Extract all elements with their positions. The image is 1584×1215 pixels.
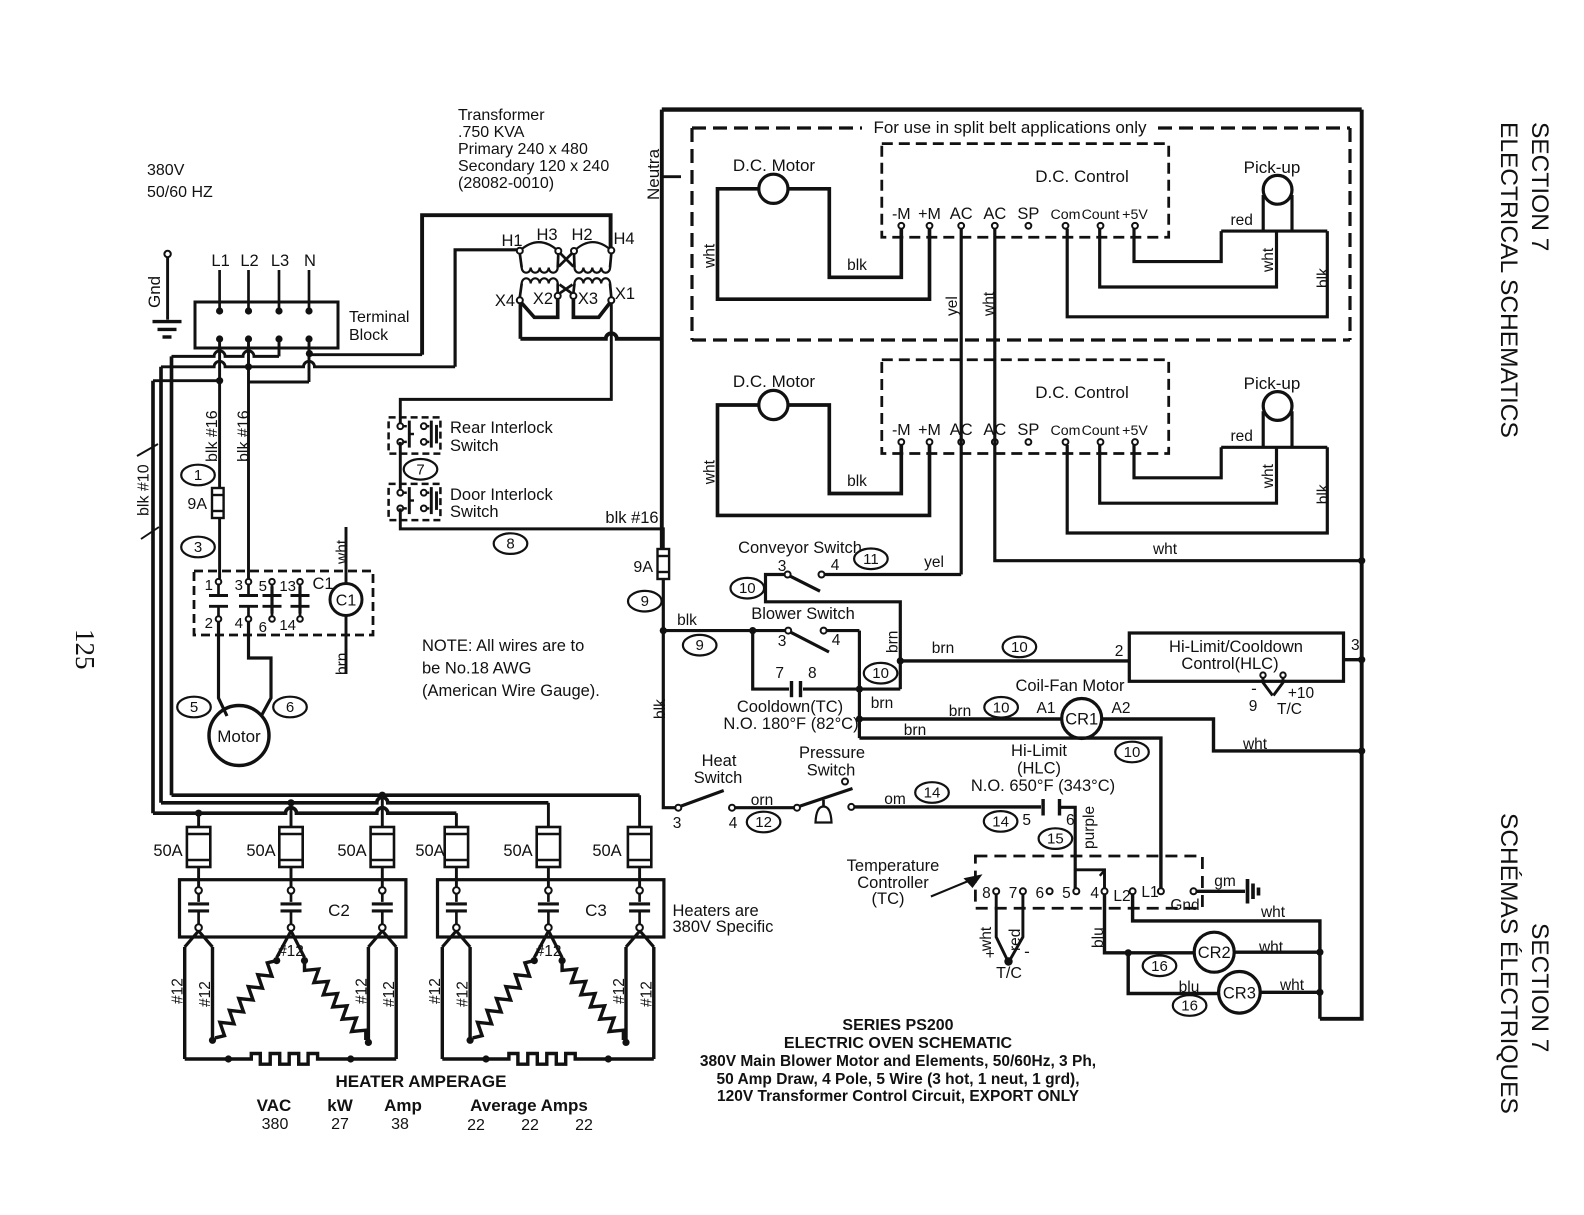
- C2 contact at x=382.3: [379, 887, 386, 894]
- svg-text:blk: blk: [847, 473, 867, 490]
- terminal X2: [555, 293, 561, 299]
- wire brn drop: [858, 689, 861, 738]
- node element top L C2: [273, 957, 280, 964]
- svg-text:Block: Block: [349, 327, 389, 344]
- wire orn pressure-hilimit: [854, 805, 1041, 808]
- svg-text:D.C. Control: D.C. Control: [1035, 167, 1129, 186]
- transformer secondary series jumpers: [522, 299, 558, 317]
- node fuse2 tap: [287, 799, 294, 806]
- svg-text:#12: #12: [427, 978, 444, 1004]
- svg-text:2: 2: [205, 615, 213, 632]
- wire fuse2 to contactor: [290, 867, 293, 887]
- callout 1: [181, 465, 215, 486]
- svg-text:50A: 50A: [503, 842, 532, 860]
- wire door interlock to 9A fuse: [400, 508, 663, 549]
- wire blk motor loop lower: [788, 405, 901, 494]
- svg-text:6: 6: [1035, 885, 1044, 902]
- tick wire mark: [137, 444, 158, 456]
- Temperature Controller dashed box: [975, 856, 1202, 908]
- node right rail / wht AC: [1358, 557, 1365, 564]
- wire #12 outer right C3: [652, 947, 655, 1059]
- svg-text:Pressure: Pressure: [799, 744, 865, 762]
- node blower/cooldown split: [749, 627, 756, 634]
- node right rail / CR1 wht: [1358, 747, 1365, 754]
- svg-text:+M: +M: [918, 206, 941, 223]
- svg-text:10: 10: [739, 580, 756, 597]
- svg-text:380V Specific: 380V Specific: [673, 918, 774, 936]
- svg-text:27: 27: [331, 1116, 349, 1133]
- wire pickup leg R lower: [1290, 411, 1293, 447]
- wire fuse6 drop: [638, 795, 641, 827]
- svg-text:50A: 50A: [246, 842, 275, 860]
- svg-text:3: 3: [778, 558, 787, 575]
- node L2 top: [245, 307, 252, 314]
- svg-text:Rear Interlock: Rear Interlock: [450, 419, 553, 437]
- node N bottom: [305, 335, 312, 342]
- wire L3 drop: [278, 339, 281, 356]
- svg-text:wht: wht: [334, 539, 351, 565]
- svg-text:38: 38: [391, 1116, 409, 1133]
- svg-text:brn: brn: [904, 722, 926, 739]
- callout 10 conveyor: [731, 578, 765, 599]
- Rear Interlock Switch: [389, 417, 441, 453]
- wire brn to A1: [859, 717, 1061, 720]
- svg-text:Amp: Amp: [384, 1096, 422, 1115]
- svg-text:#12: #12: [197, 981, 214, 1007]
- svg-text:7: 7: [1009, 885, 1018, 902]
- svg-text:X1: X1: [615, 285, 635, 303]
- C3 contact at x=639.6: [636, 887, 643, 894]
- transformer T1: [520, 242, 559, 251]
- wire fuse4 to contactor: [455, 867, 458, 887]
- heater bottom bus C2: [185, 1054, 397, 1065]
- terminal X4: [517, 297, 523, 303]
- svg-text:14: 14: [279, 617, 296, 634]
- svg-text:brn: brn: [334, 653, 351, 675]
- svg-text:Cooldown(TC): Cooldown(TC): [737, 698, 843, 716]
- C3 contact at x=456.4: [453, 887, 460, 894]
- svg-text:50 Amp Draw, 4 Pole, 5 Wire (3: 50 Amp Draw, 4 Pole, 5 Wire (3 hot, 1 ne…: [716, 1071, 1079, 1088]
- fuse 50A #3: [371, 827, 394, 867]
- wire brn to HLC: [900, 659, 1129, 662]
- svg-text:purple: purple: [1081, 806, 1098, 849]
- svg-text:Count: Count: [1082, 207, 1120, 223]
- terminal H3: [555, 248, 561, 254]
- svg-text:C1: C1: [312, 575, 333, 593]
- node element bot L C2: [209, 1037, 216, 1044]
- Cooldown (TC) contact: [753, 631, 789, 690]
- ground symbol (supply Gnd): [164, 251, 170, 257]
- svg-text:7: 7: [416, 461, 424, 478]
- terminal H4: [608, 247, 614, 253]
- svg-text:wht: wht: [1279, 977, 1305, 994]
- wire conveyor feed: [766, 575, 901, 690]
- svg-text:+10: +10: [1288, 685, 1315, 702]
- svg-text:6: 6: [286, 699, 294, 716]
- svg-text:For use in split belt applicat: For use in split belt applications only: [873, 118, 1147, 137]
- wire neutral tick: [662, 175, 681, 178]
- svg-text:6: 6: [1066, 812, 1075, 829]
- wire #12 inner right C2: [367, 947, 370, 1040]
- svg-text:AC: AC: [983, 205, 1006, 223]
- svg-text:(American Wire Gauge).: (American Wire Gauge).: [422, 682, 600, 700]
- wire blk motor loop upper: [788, 189, 901, 277]
- wire fuse3 drop: [381, 795, 384, 827]
- C1 contact 13-14: [297, 579, 303, 585]
- wire top rail: [662, 107, 1362, 111]
- svg-text:H4: H4: [613, 230, 634, 248]
- node blk junction: [660, 627, 667, 634]
- svg-text:10: 10: [1124, 744, 1141, 761]
- node L1 bottom: [216, 335, 223, 342]
- C2 contact at x=291: [288, 887, 295, 894]
- svg-text:be No.18 AWG: be No.18 AWG: [422, 660, 531, 678]
- Pick-up lower: [1263, 392, 1292, 421]
- fuse 50A #4: [445, 827, 468, 867]
- transformer secondary windings: [522, 278, 558, 283]
- node L1 junction: [216, 377, 223, 384]
- wire TC gnd: [1197, 890, 1246, 893]
- svg-text:380V Main Blower Motor and Ele: 380V Main Blower Motor and Elements, 50/…: [700, 1053, 1096, 1070]
- svg-text:Primary 240 x 480: Primary 240 x 480: [458, 141, 588, 158]
- svg-text:(TC): (TC): [872, 890, 905, 908]
- wire fuse5 to contactor: [547, 867, 550, 887]
- wire neutral to left rail: [520, 333, 661, 339]
- svg-text:wht: wht: [1260, 463, 1277, 489]
- node L1 top: [216, 307, 223, 314]
- callout 10 a1: [984, 697, 1018, 718]
- svg-text:Pick-up: Pick-up: [1244, 158, 1301, 177]
- wire red +5V to pickup upper: [1134, 229, 1221, 262]
- relay coil CR3: [1219, 972, 1261, 1014]
- svg-text:Motor: Motor: [217, 727, 261, 746]
- svg-text:22: 22: [521, 1117, 539, 1134]
- wire pickup leg L lower: [1262, 411, 1265, 447]
- relay coil CR2: [1194, 932, 1234, 972]
- terminal H2: [571, 248, 577, 254]
- wire wht C1 coil: [345, 527, 348, 584]
- svg-text:+: +: [985, 946, 994, 963]
- wire N to transformer: [309, 353, 422, 356]
- wire fuse to C1-1: [218, 518, 221, 579]
- svg-text:ELECTRICAL SCHEMATICS: ELECTRICAL SCHEMATICS: [1495, 122, 1522, 438]
- svg-text:14: 14: [924, 785, 941, 802]
- wire yel conveyor: [825, 573, 962, 576]
- wire blk to heat switch: [663, 579, 675, 808]
- svg-text:3: 3: [194, 539, 202, 556]
- svg-text:-M: -M: [892, 422, 911, 439]
- svg-text:VAC: VAC: [257, 1096, 292, 1115]
- svg-text:4: 4: [831, 557, 840, 574]
- svg-text:H2: H2: [571, 226, 592, 244]
- svg-text:12: 12: [755, 814, 772, 831]
- svg-text:#12: #12: [455, 981, 472, 1007]
- pressure blade: [800, 789, 853, 807]
- svg-text:SCHÉMAS ÉLECTRIQUES: SCHÉMAS ÉLECTRIQUES: [1495, 813, 1522, 1114]
- wire wht TC8: [996, 894, 1007, 960]
- D.C. Control dashed box (lower): [882, 360, 1169, 454]
- hilimit plate 6: [1058, 799, 1061, 816]
- svg-text:Hi-Limit: Hi-Limit: [1011, 742, 1067, 760]
- D.C. Motor lower: [759, 390, 788, 419]
- callout 9 b: [683, 635, 717, 656]
- svg-text:#12: #12: [639, 981, 656, 1007]
- svg-text:D.C. Control: D.C. Control: [1035, 383, 1129, 402]
- svg-text:8: 8: [982, 885, 991, 902]
- wire L2 lead: [247, 270, 250, 311]
- node bus dot R C2: [347, 1055, 354, 1062]
- wire red +5V to pickup lower: [1134, 445, 1221, 478]
- svg-text:X3: X3: [578, 290, 598, 308]
- svg-text:5: 5: [259, 578, 267, 595]
- wire yel AC chain: [960, 229, 963, 575]
- svg-text:T/C: T/C: [996, 965, 1022, 982]
- svg-text:22: 22: [467, 1117, 485, 1134]
- wire pickup bus upper: [1221, 230, 1327, 233]
- wire bus L2: [161, 797, 548, 803]
- wire transformer neutral bottom: [519, 303, 523, 339]
- svg-text:Switch: Switch: [450, 437, 499, 455]
- svg-text:red: red: [1230, 428, 1252, 445]
- svg-text:SECTION 7: SECTION 7: [1526, 122, 1553, 251]
- svg-text:SP: SP: [1017, 421, 1039, 439]
- svg-text:50A: 50A: [153, 842, 182, 860]
- svg-text:wht: wht: [702, 243, 719, 269]
- wire blk Com to pickup lower: [1067, 445, 1327, 533]
- Hi-Limit/Cooldown Control (HLC) box: [1129, 633, 1343, 681]
- fuse 50A #6: [628, 827, 651, 867]
- callout 14 a: [915, 782, 949, 803]
- HLC thermocouple: [1260, 672, 1265, 677]
- svg-text:brn: brn: [884, 631, 901, 653]
- svg-text:#12: #12: [536, 943, 562, 960]
- terminal X1: [608, 297, 614, 303]
- heater bank C3 wiring: [442, 931, 456, 947]
- svg-text:2: 2: [1115, 643, 1124, 660]
- D.C. Control dashed box (upper): [882, 144, 1169, 238]
- svg-text:X2: X2: [533, 290, 553, 308]
- svg-text:Terminal: Terminal: [349, 309, 409, 326]
- svg-text:10: 10: [872, 665, 889, 682]
- svg-text:blk #16: blk #16: [605, 509, 658, 527]
- svg-text:blk: blk: [677, 612, 697, 629]
- svg-text:5: 5: [1022, 812, 1031, 829]
- wire A2 to rail: [1102, 719, 1362, 751]
- svg-text:yel: yel: [944, 296, 961, 316]
- svg-text:9A: 9A: [633, 559, 653, 576]
- svg-text:.750 KVA: .750 KVA: [458, 124, 525, 141]
- wire left rail (neutral/feed): [660, 110, 664, 549]
- relay coil CR1: [1062, 699, 1102, 739]
- svg-text:blk: blk: [652, 699, 669, 719]
- wire L2 riser to H1: [455, 250, 517, 367]
- svg-text:3: 3: [235, 577, 243, 594]
- svg-text:H1: H1: [501, 232, 522, 250]
- svg-text:Door Interlock: Door Interlock: [450, 486, 553, 504]
- svg-text:yel: yel: [924, 554, 944, 571]
- svg-text:C2: C2: [328, 901, 350, 920]
- hilimit plate 5: [1041, 799, 1044, 816]
- svg-text:6: 6: [259, 619, 267, 636]
- node L2 bottom: [245, 335, 252, 342]
- node brn junction: [897, 657, 904, 664]
- svg-text:wht: wht: [1242, 736, 1268, 753]
- C1 contact 1-2: [216, 579, 222, 585]
- svg-text:Secondary 120 x 240: Secondary 120 x 240: [458, 158, 609, 175]
- svg-text:8: 8: [506, 536, 514, 553]
- node brn CR1 junction: [856, 715, 863, 722]
- svg-text:blk: blk: [847, 257, 867, 274]
- svg-text:10: 10: [1011, 639, 1028, 656]
- svg-text:120V Transformer Control Circu: 120V Transformer Control Circuit, EXPORT…: [717, 1088, 1080, 1105]
- svg-text:L1: L1: [211, 252, 229, 270]
- svg-text:kW: kW: [327, 1096, 353, 1115]
- transformer secondary cross link: [560, 285, 573, 294]
- C2 contact at x=198.6: [195, 887, 202, 894]
- callout 10 l1: [1115, 742, 1149, 763]
- wire fuse3 to contactor: [381, 867, 384, 887]
- svg-text:blk #16: blk #16: [204, 410, 221, 462]
- ground symbol TC: [1246, 879, 1250, 904]
- wire N lead: [308, 270, 311, 311]
- svg-text:#12: #12: [381, 981, 398, 1007]
- callout 5: [177, 697, 211, 718]
- wire N to C1-3 link: [249, 381, 310, 384]
- svg-text:3: 3: [778, 633, 787, 650]
- node T/C junction: [1004, 957, 1012, 965]
- TC pointer arrow: [931, 880, 972, 897]
- svg-text:HEATER AMPERAGE: HEATER AMPERAGE: [336, 1072, 507, 1091]
- svg-text:4: 4: [235, 615, 243, 632]
- wire L2 bus: [161, 361, 455, 366]
- svg-text:22: 22: [575, 1117, 593, 1134]
- svg-text:X4: X4: [495, 292, 515, 310]
- svg-text:gm: gm: [1214, 873, 1236, 890]
- node fuse1 tap: [195, 810, 202, 817]
- svg-text:50A: 50A: [337, 842, 366, 860]
- svg-text:L3: L3: [271, 252, 289, 270]
- svg-text:ELECTRIC OVEN SCHEMATIC: ELECTRIC OVEN SCHEMATIC: [784, 1035, 1013, 1052]
- pressure diaphragm: [822, 800, 825, 807]
- node element bot L C3: [467, 1037, 474, 1044]
- callout 10 hlc: [1003, 637, 1037, 658]
- svg-text:red: red: [1230, 212, 1252, 229]
- C1 coil: [330, 584, 362, 616]
- svg-text:-M: -M: [892, 206, 911, 223]
- wire N riser to H4: [422, 215, 610, 355]
- wire fuse1 drop: [197, 813, 200, 827]
- svg-text:D.C. Motor: D.C. Motor: [733, 156, 816, 175]
- svg-text:red: red: [1007, 929, 1024, 951]
- svg-text:wht: wht: [1260, 247, 1277, 273]
- svg-text:16: 16: [1181, 998, 1198, 1015]
- svg-text:4: 4: [729, 815, 738, 832]
- wire N to C1-3: [247, 382, 250, 579]
- svg-text:13: 13: [279, 578, 296, 595]
- svg-text:3: 3: [1351, 637, 1360, 654]
- wire bus L1: [153, 808, 456, 813]
- wire red TC7: [1010, 894, 1023, 960]
- svg-text:8: 8: [808, 665, 817, 682]
- svg-text:Control(HLC): Control(HLC): [1181, 655, 1278, 673]
- terminal block: [195, 302, 338, 348]
- svg-text:NOTE: All wires are to: NOTE: All wires are to: [422, 637, 584, 655]
- wire blower drop: [858, 631, 861, 690]
- fuse 50A #2: [279, 827, 302, 867]
- Door Interlock Switch: [389, 484, 441, 520]
- wire wht motor loop lower: [718, 405, 930, 515]
- wire wht AC chain: [995, 229, 1362, 561]
- wire CR3 out: [1260, 991, 1320, 994]
- transformer primary cross link: [561, 254, 574, 267]
- svg-text:CR2: CR2: [1198, 944, 1231, 962]
- callout 15: [1039, 828, 1073, 849]
- wire orn heat-pressure: [735, 806, 794, 809]
- svg-text:#12: #12: [354, 978, 371, 1004]
- node element bot R C3: [622, 1039, 629, 1046]
- wire bus L3: [172, 793, 640, 797]
- svg-text:wht: wht: [1258, 939, 1284, 956]
- svg-text:(28082-0010): (28082-0010): [458, 175, 554, 192]
- svg-text:Temperature: Temperature: [847, 857, 940, 875]
- wire wht motor loop upper: [718, 189, 930, 299]
- svg-text:5: 5: [1062, 885, 1071, 902]
- callout 14 b: [984, 811, 1018, 832]
- jumper serif: [1100, 870, 1105, 876]
- wire #12 outer right C2: [394, 947, 397, 1059]
- wire purple to TC: [1060, 807, 1076, 888]
- svg-text:380: 380: [262, 1116, 289, 1133]
- wire TC 4-5 jumper: [1075, 870, 1104, 889]
- svg-text:CR1: CR1: [1065, 711, 1098, 729]
- svg-text:#12: #12: [611, 978, 628, 1004]
- C1 contact 5-6: [269, 579, 275, 585]
- callout 7: [404, 459, 438, 480]
- wire blk#10 L1 vertical: [151, 381, 155, 814]
- svg-text:Transformer: Transformer: [458, 107, 545, 124]
- conveyor blade: [790, 576, 820, 591]
- svg-text:+5V: +5V: [1122, 207, 1148, 223]
- node cr2 rail: [1316, 949, 1323, 956]
- svg-text:CR3: CR3: [1223, 984, 1256, 1002]
- svg-text:9: 9: [641, 593, 649, 610]
- svg-text:50A: 50A: [592, 842, 621, 860]
- node bus dot L C2: [225, 1055, 232, 1062]
- svg-text:A1: A1: [1037, 700, 1056, 717]
- svg-text:Count: Count: [1082, 423, 1120, 439]
- svg-text:11: 11: [863, 551, 879, 568]
- svg-text:N.O. 180°F (82°C): N.O. 180°F (82°C): [723, 715, 858, 733]
- wire blk#10 L2 vertical: [159, 367, 163, 803]
- svg-text:brn: brn: [871, 695, 893, 712]
- svg-text:blk: blk: [1315, 484, 1332, 504]
- C1 contact 3-4: [246, 579, 252, 585]
- wire N drop: [308, 339, 311, 382]
- callout 6: [273, 697, 307, 718]
- svg-text:brn: brn: [949, 703, 971, 720]
- svg-text:blk #10: blk #10: [136, 464, 153, 516]
- contactor C1 dashed box: [194, 571, 373, 635]
- wire wht Count to pickup lower: [1100, 445, 1277, 503]
- wire fuse4 drop: [455, 813, 458, 827]
- wire wht Count to pickup upper: [1100, 229, 1277, 287]
- node fuse3 tap: [379, 792, 386, 799]
- svg-text:SECTION 7: SECTION 7: [1526, 923, 1553, 1052]
- heater element left C2: [215, 961, 277, 1038]
- svg-text:+M: +M: [918, 422, 941, 439]
- callout 10 cooldown: [864, 663, 898, 684]
- svg-text:-: -: [1024, 942, 1030, 961]
